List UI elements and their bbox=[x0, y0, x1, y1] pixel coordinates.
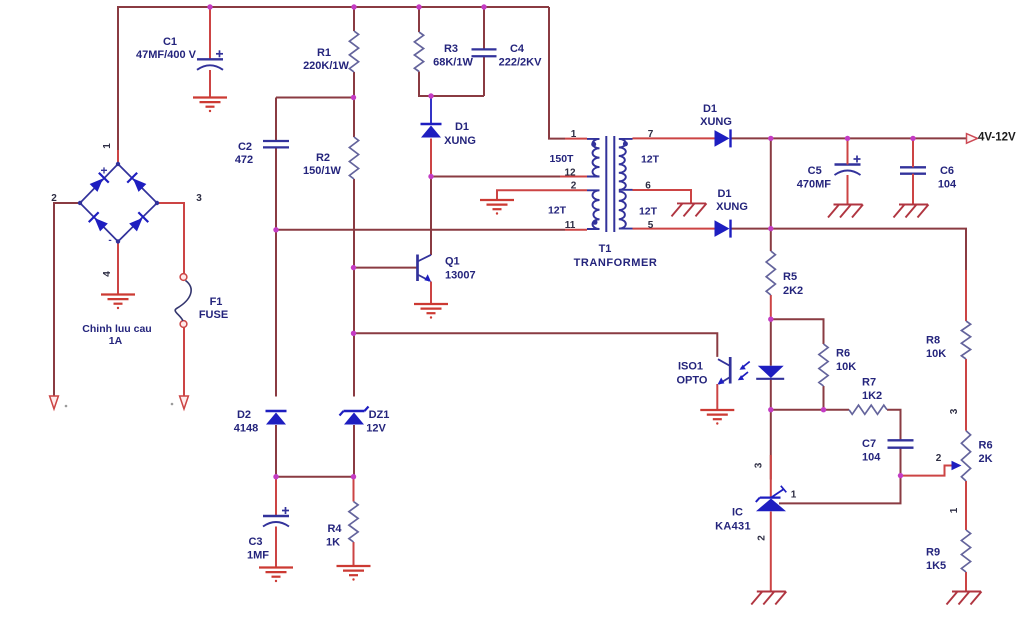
svg-text:XUNG: XUNG bbox=[700, 116, 732, 128]
optocoupler ISO1 transistor bbox=[729, 357, 732, 384]
svg-text:2K2: 2K2 bbox=[783, 285, 803, 297]
bridge diode bottom-left bbox=[89, 212, 109, 232]
ground KA431 bbox=[757, 591, 786, 593]
svg-text:4: 4 bbox=[102, 271, 113, 277]
wire C2 top lead bbox=[275, 98, 277, 142]
wire node to R6 top bbox=[771, 319, 824, 344]
svg-text:2: 2 bbox=[571, 181, 577, 192]
zener DZ1 bbox=[344, 410, 365, 412]
wire Q1 base bbox=[354, 267, 417, 269]
output arrow 4V-12V bbox=[967, 134, 978, 144]
capacitor C6 bbox=[900, 166, 926, 168]
wire output node down to R5 bbox=[770, 138, 772, 251]
ground transformer pin 6 bbox=[677, 202, 706, 204]
junction dots bbox=[207, 4, 212, 9]
svg-text:+: + bbox=[100, 164, 107, 178]
svg-text:XUNG: XUNG bbox=[444, 135, 476, 147]
speck near right arrow bbox=[171, 403, 174, 406]
svg-text:1K5: 1K5 bbox=[926, 560, 946, 572]
wire pot to R9 bbox=[965, 481, 967, 530]
AC input arrow right bbox=[180, 396, 189, 409]
svg-text:150T: 150T bbox=[550, 153, 575, 165]
wire pin7 to D1 rectifier bbox=[633, 137, 715, 139]
svg-text:1K: 1K bbox=[326, 537, 340, 549]
svg-text:-: - bbox=[108, 235, 111, 246]
wire Q1 emitter to ground bbox=[430, 282, 432, 305]
svg-text:IC: IC bbox=[732, 507, 743, 519]
resistor R2 bbox=[349, 137, 358, 179]
wire bridge left to AC input bbox=[54, 203, 80, 396]
svg-text:KA431: KA431 bbox=[715, 521, 751, 533]
svg-text:2: 2 bbox=[936, 453, 942, 464]
svg-text:D2: D2 bbox=[237, 409, 251, 421]
wire pin5 to D1 rectifier bbox=[633, 228, 715, 230]
svg-text:OPTO: OPTO bbox=[677, 375, 708, 387]
svg-text:2: 2 bbox=[757, 535, 768, 541]
resistor R7 bbox=[849, 405, 887, 414]
svg-text:7: 7 bbox=[648, 129, 654, 140]
bridge diode top-right bbox=[127, 173, 147, 193]
svg-text:R9: R9 bbox=[926, 547, 940, 559]
wire pin1 stub bbox=[565, 138, 587, 140]
wire R8 to pot bbox=[965, 359, 967, 431]
resistor R9 bbox=[961, 530, 970, 572]
svg-text:T1: T1 bbox=[599, 243, 612, 255]
svg-text:2: 2 bbox=[51, 193, 57, 204]
transformer T1 core bbox=[605, 136, 607, 232]
resistor R5 bbox=[766, 251, 775, 295]
svg-text:DZ1: DZ1 bbox=[369, 409, 390, 421]
transformer T1 primary winding 2 bbox=[587, 190, 600, 229]
resistor R8 bbox=[961, 321, 970, 359]
svg-text:TRANFORMER: TRANFORMER bbox=[574, 257, 658, 269]
wire D1 anode to node bbox=[430, 139, 432, 177]
ground transformer pin 2 bbox=[480, 199, 514, 201]
svg-text:C5: C5 bbox=[808, 165, 822, 177]
svg-text:3: 3 bbox=[196, 193, 202, 204]
ground Q1 bbox=[414, 303, 448, 305]
ground R9 bbox=[952, 591, 981, 593]
wire pin6 to ground bbox=[633, 190, 692, 203]
diode D1 rectifier top bbox=[715, 130, 730, 147]
svg-text:10K: 10K bbox=[926, 348, 946, 360]
svg-text:Chinh luu cau: Chinh luu cau bbox=[82, 323, 151, 335]
svg-text:12T: 12T bbox=[639, 206, 658, 218]
fuse F1 bbox=[180, 274, 187, 281]
wire R1 top stub bbox=[353, 7, 355, 31]
svg-text:12T: 12T bbox=[548, 205, 567, 217]
diode D2 bbox=[266, 410, 287, 412]
ground bridge bbox=[101, 293, 135, 295]
wire D2 DZ1 bottom junction bar bbox=[276, 476, 354, 478]
wire R9 to ground bbox=[965, 572, 967, 592]
svg-text:12V: 12V bbox=[366, 423, 386, 435]
capacitor C4 bbox=[472, 48, 497, 50]
wire R8 feed bbox=[965, 270, 967, 321]
svg-text:R6: R6 bbox=[836, 348, 850, 360]
resistor R4 bbox=[349, 502, 358, 543]
wire C3 top lead bbox=[275, 477, 277, 516]
svg-text:6: 6 bbox=[645, 181, 651, 192]
svg-text:4148: 4148 bbox=[234, 423, 258, 435]
wire R2 connect bbox=[353, 98, 355, 138]
svg-text:2K: 2K bbox=[979, 453, 993, 465]
svg-text:R8: R8 bbox=[926, 335, 940, 347]
svg-text:XUNG: XUNG bbox=[716, 201, 748, 213]
wire R3 top stub bbox=[418, 7, 420, 32]
bridge rectifier diamond bbox=[80, 164, 157, 242]
wire LED cathode to node bbox=[770, 379, 772, 410]
wire primary bus pin11 bbox=[276, 229, 565, 231]
svg-text:C1: C1 bbox=[163, 36, 177, 48]
wire pin11 stub bbox=[565, 229, 587, 231]
wire node to pot wiper bbox=[901, 466, 952, 476]
optocoupler light arrows bbox=[741, 362, 750, 369]
wire C1 lead bbox=[209, 7, 211, 59]
wire C1 to ground bbox=[209, 70, 211, 98]
wire node R1-R2-C2 horizontal bbox=[276, 97, 354, 99]
wire C4 top lead bbox=[483, 7, 485, 49]
wire C2 bottom to bus and D2 bbox=[275, 148, 277, 397]
svg-text:R3: R3 bbox=[444, 43, 458, 55]
wire R3 bottom bbox=[419, 72, 484, 97]
svg-text:R7: R7 bbox=[862, 377, 876, 389]
wire node to LED anode bbox=[770, 319, 772, 366]
svg-text:FUSE: FUSE bbox=[199, 309, 228, 321]
svg-text:11: 11 bbox=[565, 220, 576, 231]
svg-text:472: 472 bbox=[235, 154, 253, 166]
svg-text:C4: C4 bbox=[510, 43, 525, 55]
wire pin2 to ground bbox=[497, 190, 587, 200]
wire output rail bbox=[732, 137, 967, 139]
transformer phase dots bbox=[591, 142, 596, 147]
svg-text:R4: R4 bbox=[327, 523, 342, 535]
svg-text:1K2: 1K2 bbox=[862, 390, 882, 402]
wire R1 bottom to node bbox=[353, 72, 355, 98]
wire fuse to AC input bbox=[183, 328, 185, 397]
svg-text:4V-12V: 4V-12V bbox=[978, 132, 1016, 144]
svg-text:12T: 12T bbox=[641, 154, 660, 166]
svg-text:68K/1W: 68K/1W bbox=[433, 57, 473, 69]
wire R4 to ground bbox=[353, 542, 355, 566]
wire R2 down to base node and DZ1 bbox=[353, 179, 355, 397]
svg-text:1: 1 bbox=[791, 490, 797, 501]
ground C6 bbox=[899, 204, 928, 206]
capacitor C2 bbox=[263, 140, 289, 142]
bridge diode top-left bbox=[89, 173, 109, 193]
wire lower secondary net bbox=[732, 229, 967, 270]
svg-text:3: 3 bbox=[754, 462, 765, 468]
transistor Q1 bbox=[416, 255, 419, 282]
wire D2 anode lead bbox=[275, 425, 277, 477]
wire pin12 stub bbox=[560, 176, 587, 178]
svg-text:R2: R2 bbox=[316, 152, 330, 164]
optocoupler LED bbox=[758, 366, 784, 378]
svg-text:220K/1W: 220K/1W bbox=[303, 60, 349, 72]
potentiometer R6 2K bbox=[961, 431, 970, 481]
svg-text:C6: C6 bbox=[940, 165, 954, 177]
wire DZ1 anode lead bbox=[353, 425, 355, 477]
wire C4 bottom lead bbox=[483, 57, 485, 97]
svg-text:47MF/400 V: 47MF/400 V bbox=[136, 49, 197, 61]
svg-text:1: 1 bbox=[571, 129, 577, 140]
wire bridge bottom to ground bbox=[117, 242, 119, 295]
wire collector line D1-Q1 bbox=[430, 177, 432, 256]
speck near left arrow bbox=[65, 405, 68, 408]
diode D1 primary snubber bbox=[421, 123, 442, 125]
diode D1 rectifier bottom bbox=[715, 220, 730, 237]
capacitor C5 bbox=[835, 163, 861, 165]
wire opto emitter to ground bbox=[716, 384, 718, 410]
wire C7 to node bbox=[900, 448, 902, 476]
svg-text:5: 5 bbox=[648, 220, 654, 231]
transformer T1 secondary winding 1 bbox=[619, 139, 633, 190]
svg-text:C3: C3 bbox=[248, 536, 262, 548]
svg-text:D1: D1 bbox=[455, 121, 469, 133]
svg-text:1: 1 bbox=[102, 143, 113, 149]
ground C5 bbox=[834, 204, 863, 206]
bridge diode bottom-right bbox=[128, 212, 148, 232]
bridge node dots bbox=[116, 162, 120, 166]
svg-text:D1: D1 bbox=[717, 188, 731, 200]
svg-text:470MF: 470MF bbox=[797, 179, 832, 191]
svg-text:12: 12 bbox=[564, 168, 576, 179]
svg-text:C2: C2 bbox=[238, 141, 252, 153]
ground ISO1 bbox=[700, 409, 734, 411]
wire C6 leads bbox=[912, 138, 914, 167]
svg-text:222/2KV: 222/2KV bbox=[499, 57, 542, 69]
svg-text:C7: C7 bbox=[862, 438, 876, 450]
svg-text:104: 104 bbox=[862, 452, 881, 464]
wire R7 to C7 bbox=[887, 410, 901, 441]
svg-text:10K: 10K bbox=[836, 361, 856, 373]
svg-text:104: 104 bbox=[938, 179, 957, 191]
AC input arrow left bbox=[50, 396, 59, 409]
svg-text:Q1: Q1 bbox=[445, 256, 460, 268]
ground R4 bbox=[337, 565, 371, 567]
capacitor C7 bbox=[888, 439, 914, 441]
wire D1 cathode lead bbox=[430, 96, 432, 124]
svg-text:ISO1: ISO1 bbox=[678, 361, 703, 373]
svg-text:3: 3 bbox=[949, 408, 960, 414]
wire KA431 cathode lead bbox=[770, 455, 772, 497]
wire R4 top lead bbox=[353, 477, 355, 502]
svg-text:1A: 1A bbox=[109, 335, 123, 347]
wire node to R7 bbox=[771, 409, 849, 411]
pot wiper arrow bbox=[952, 461, 962, 471]
capacitor C1 bbox=[197, 58, 223, 60]
wire bridge top stub bbox=[117, 150, 119, 164]
wire KA431 cathode bbox=[770, 410, 772, 480]
wire R5 to node bbox=[770, 295, 772, 319]
wire R6 bottom to node bbox=[823, 386, 825, 410]
wire feedback to opto collector bbox=[354, 333, 718, 357]
svg-text:R6: R6 bbox=[979, 440, 993, 452]
wire bridge right to fuse bbox=[157, 203, 184, 274]
svg-text:R5: R5 bbox=[783, 271, 797, 283]
resistor R6 10K bbox=[819, 344, 828, 386]
svg-text:R1: R1 bbox=[317, 47, 331, 59]
svg-text:13007: 13007 bbox=[445, 270, 476, 282]
IC KA431 shunt regulator bbox=[760, 497, 781, 499]
svg-text:150/1W: 150/1W bbox=[303, 165, 342, 177]
wire KA431 anode to ground bbox=[770, 512, 772, 592]
transformer T1 secondary winding 2 bbox=[619, 192, 633, 229]
ground C3 bbox=[259, 566, 293, 568]
wire top HV rail bbox=[118, 7, 549, 150]
svg-text:D1: D1 bbox=[703, 103, 717, 115]
wire C5 leads bbox=[847, 138, 849, 164]
wire node to KA431 ref pin1 bbox=[779, 476, 901, 504]
resistor R1 bbox=[349, 31, 358, 72]
svg-text:1: 1 bbox=[949, 507, 960, 513]
resistor R3 bbox=[414, 32, 423, 72]
svg-text:F1: F1 bbox=[210, 296, 223, 308]
svg-text:1MF: 1MF bbox=[247, 550, 269, 562]
transformer T1 primary winding 1 bbox=[587, 139, 600, 177]
ground C1 bbox=[193, 96, 227, 98]
wire transformer pin1 drop bbox=[549, 7, 565, 139]
capacitor C3 bbox=[263, 515, 289, 517]
wire pin12 from node bbox=[431, 176, 560, 178]
wire C3 to ground bbox=[275, 527, 277, 568]
